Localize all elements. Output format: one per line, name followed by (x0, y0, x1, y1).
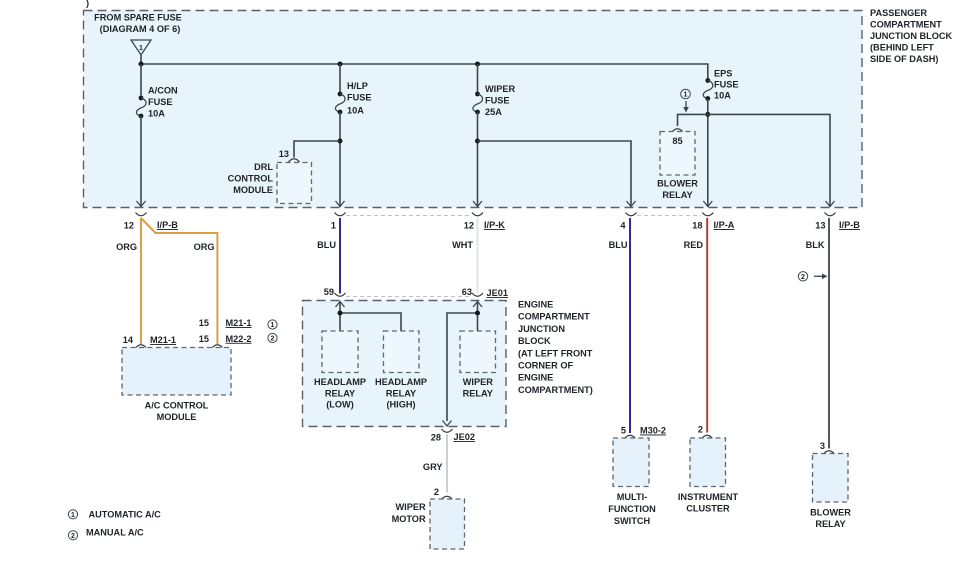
wire WIPER fuse to exit pin 12 I/P-K (477, 112, 479, 206)
svg-text:PASSENGER: PASSENGER (870, 8, 927, 18)
fuse WIPER 25A (473, 92, 483, 115)
headlamp relay high box (384, 331, 420, 373)
svg-text:3: 3 (820, 441, 825, 451)
label BLOWER RELAY (810, 508, 851, 529)
svg-text:(LOW): (LOW) (326, 400, 354, 410)
label DRL CONTROL MODULE (228, 162, 274, 195)
headlamp relay low box (322, 331, 358, 373)
svg-text:12: 12 (124, 221, 134, 231)
faint connector link pins 59 to 63 (346, 296, 471, 298)
svg-text:MULTI-: MULTI- (617, 492, 647, 502)
svg-text:FUSE: FUSE (148, 97, 173, 107)
svg-text:GRY: GRY (423, 462, 443, 472)
svg-text:MODULE: MODULE (157, 412, 197, 422)
svg-text:ENGINE: ENGINE (518, 373, 553, 383)
circled 2 note at M22-2 (268, 333, 277, 342)
svg-text:CORNER OF: CORNER OF (518, 361, 574, 371)
svg-text:2: 2 (698, 425, 703, 435)
circled 2 note at BLK wire (798, 272, 807, 281)
label pin 12 I/P-K (464, 220, 506, 231)
label HEADLAMP RELAY (LOW) (314, 377, 366, 410)
label pin 63 JE01 (462, 287, 508, 298)
junction node EPS branch (705, 112, 710, 117)
svg-text:18: 18 (692, 221, 702, 231)
svg-text:M21-1: M21-1 (150, 335, 176, 345)
svg-text:RELAY: RELAY (325, 388, 355, 398)
svg-text:H/LP: H/LP (347, 81, 368, 91)
arrow at pin 18 exit (703, 201, 712, 207)
svg-text:(AT LEFT FRONT: (AT LEFT FRONT (518, 348, 593, 358)
svg-text:BLOWER: BLOWER (657, 179, 698, 189)
connector smile pin 13 (825, 213, 836, 216)
wire BLK pin 13 to blower relay (828, 218, 830, 449)
wire pin 63 to wiper relay and JE02 (447, 302, 478, 422)
label WIPER FUSE 25A (485, 84, 515, 117)
label pin 15 M22-2 (199, 334, 252, 344)
arrow at pin 12 I/P-K exit (473, 201, 482, 207)
arrow note 1 down (683, 101, 689, 113)
label WIPER RELAY (463, 377, 494, 398)
svg-text:SWITCH: SWITCH (614, 516, 651, 526)
label EPS FUSE 10A (714, 69, 739, 101)
svg-text:2: 2 (434, 487, 439, 497)
circled 1 note (681, 89, 691, 99)
label pin 14 M21-1 (123, 335, 176, 345)
svg-text:INSTRUMENT: INSTRUMENT (678, 492, 739, 502)
svg-text:BLU: BLU (317, 240, 336, 250)
passenger compartment junction block box (84, 11, 863, 208)
svg-text:1: 1 (71, 512, 75, 519)
svg-text:25A: 25A (485, 107, 502, 117)
wiper relay box (460, 331, 496, 373)
svg-text:I/P-B: I/P-B (839, 220, 860, 230)
wire BLU pin 4 to multi-function switch (629, 218, 631, 433)
svg-text:2: 2 (71, 533, 75, 540)
label INSTRUMENT CLUSTER (678, 492, 739, 513)
wire bus to WIPER fuse (477, 64, 479, 94)
connector pin 85 blower relay (672, 129, 683, 132)
wire RED pin 18 to instrument cluster (706, 218, 708, 433)
svg-text:RED: RED (684, 240, 704, 250)
svg-text:DRL: DRL (254, 162, 273, 172)
svg-text:12: 12 (464, 221, 474, 231)
connector pin 13 DRL (289, 159, 300, 162)
faint connector link pins 1 to 12 (346, 215, 471, 217)
fuse H/LP 10A (335, 92, 345, 115)
DRL control module box (277, 163, 312, 204)
arrow down at pin 28 exit (443, 421, 452, 427)
svg-text:MANUAL A/C: MANUAL A/C (86, 528, 144, 538)
connector smile pin 1 (335, 213, 346, 216)
wire branch to DRL module (294, 141, 340, 158)
svg-text:I/P-A: I/P-A (714, 220, 735, 230)
engine compartment junction block box (303, 301, 507, 427)
arrow up at pin 59 inside (336, 302, 345, 308)
arrow at pin 13 exit (826, 201, 835, 207)
svg-text:FUNCTION: FUNCTION (608, 504, 656, 514)
svg-text:ORG: ORG (116, 242, 137, 252)
wire A/CON fuse to exit pin 12 (140, 116, 142, 206)
wire branch to pin 4 exit (478, 141, 632, 206)
connector pin 2 wiper motor (442, 496, 453, 499)
connector pin 5 (625, 435, 636, 438)
wire triangle to bus (140, 55, 142, 64)
svg-text:14: 14 (123, 335, 134, 345)
legend circled 1 (68, 510, 77, 519)
wire branch to blower relay and pin 13 exit (678, 114, 831, 206)
svg-text:WIPER: WIPER (463, 377, 493, 387)
svg-text:RELAY: RELAY (662, 190, 692, 200)
svg-text:(BEHIND LEFT: (BEHIND LEFT (870, 43, 934, 53)
label A/CON FUSE 10A (148, 86, 178, 119)
svg-text:COMPARTMENT: COMPARTMENT (518, 312, 590, 322)
svg-text:63: 63 (462, 287, 472, 297)
connector smile pin 18 (702, 213, 713, 216)
wire GRY JE02 to wiper motor (446, 434, 448, 493)
svg-text:AUTOMATIC A/C: AUTOMATIC A/C (89, 510, 162, 520)
svg-text:HEADLAMP: HEADLAMP (375, 377, 427, 387)
svg-text:MODULE: MODULE (233, 185, 273, 195)
connector smile pin 59 (335, 293, 346, 296)
svg-text:JE02: JE02 (454, 432, 475, 442)
svg-text:WHT: WHT (452, 240, 473, 250)
label pin 15 M21-1 (199, 318, 252, 328)
svg-text:FUSE: FUSE (347, 93, 372, 103)
wire BLU pin 1 to engine block pin 59 (339, 218, 341, 294)
arrow at pin 1 exit (336, 201, 345, 207)
svg-text:1: 1 (139, 45, 143, 52)
label BLOWER RELAY (in box) (657, 179, 698, 200)
svg-text:13: 13 (279, 149, 289, 159)
svg-text:2: 2 (271, 336, 275, 343)
wiper motor box (430, 499, 465, 549)
connector smile pin 63 (472, 293, 483, 296)
svg-text:RELAY: RELAY (386, 388, 416, 398)
svg-text:HEADLAMP: HEADLAMP (314, 377, 366, 387)
label MULTI-FUNCTION SWITCH (608, 492, 656, 526)
svg-text:M21-1: M21-1 (226, 318, 252, 328)
svg-text:10A: 10A (714, 91, 731, 101)
svg-text:EPS: EPS (714, 69, 732, 79)
svg-text:CLUSTER: CLUSTER (686, 504, 730, 514)
legend circled 2 (68, 531, 77, 540)
junction node WIPER (475, 62, 480, 67)
wire WHT pin 12 to engine block pin 63 (477, 218, 479, 294)
svg-text:I/P-K: I/P-K (484, 220, 505, 230)
spare fuse source triangle (131, 40, 151, 55)
blower relay box (813, 454, 849, 503)
fuse A/CON 10A (136, 96, 146, 119)
svg-text:FUSE: FUSE (485, 96, 510, 106)
wire ORG right branch (141, 218, 217, 344)
connector pin 14 (136, 345, 147, 348)
svg-text:RELAY: RELAY (815, 519, 845, 529)
svg-text:A/C CONTROL: A/C CONTROL (145, 400, 209, 410)
svg-text:10A: 10A (148, 109, 165, 119)
label HEADLAMP RELAY (HIGH) (375, 377, 427, 410)
svg-text:2: 2 (801, 274, 805, 281)
wire bus to H/LP fuse (339, 64, 341, 94)
junction node H/LP (338, 62, 343, 67)
label pin 28 JE02 (431, 432, 475, 443)
junction node DRL branch (338, 139, 343, 144)
svg-text:BLU: BLU (609, 240, 628, 250)
blower relay 85 box (660, 132, 695, 176)
multi-function switch box (613, 438, 649, 487)
svg-text:BLOWER: BLOWER (810, 508, 851, 518)
svg-text:A/CON: A/CON (148, 86, 178, 96)
svg-text:(HIGH): (HIGH) (386, 400, 415, 410)
connector smile pin 4 (626, 213, 637, 216)
bus wire (141, 64, 708, 81)
svg-text:COMPARTMENT: COMPARTMENT (870, 20, 942, 30)
svg-text:JE01: JE01 (487, 288, 508, 298)
svg-text:FUSE: FUSE (714, 80, 739, 90)
label pin 12 I/P-B (124, 220, 179, 231)
svg-text:BLK: BLK (806, 240, 825, 250)
svg-text:28: 28 (431, 433, 441, 443)
svg-text:FROM SPARE FUSE: FROM SPARE FUSE (94, 13, 182, 23)
label: engine compartment junction block (518, 300, 593, 395)
arrow at pin 12 exit (137, 201, 146, 207)
junction node wiper branch (475, 139, 480, 144)
junction node at triangle (139, 62, 144, 67)
svg-text:ENGINE: ENGINE (518, 300, 553, 310)
svg-text:RELAY: RELAY (463, 388, 493, 398)
svg-text:5: 5 (621, 426, 626, 436)
svg-text:1: 1 (331, 221, 336, 231)
label A/C CONTROL MODULE (145, 400, 209, 422)
label WIPER MOTOR (392, 502, 426, 524)
junction node pin 59 (338, 311, 343, 316)
svg-text:WIPER: WIPER (395, 502, 425, 512)
wire pin 59 to headlamp relays (340, 302, 401, 332)
junction node pin 63 (475, 311, 480, 316)
wire H/LP fuse to exit pin 1 (339, 112, 341, 206)
circled 1 note at M21-1 (268, 320, 277, 329)
svg-text:COMPARTMENT): COMPARTMENT) (518, 385, 593, 395)
label H/LP FUSE 10A (347, 81, 372, 116)
wire ORG left branch (140, 218, 142, 344)
svg-text:SIDE OF DASH): SIDE OF DASH) (870, 54, 938, 64)
label pin 13 I/P-B (815, 220, 860, 231)
label pin 5 M30-2 (621, 426, 666, 436)
svg-text:M22-2: M22-2 (226, 334, 252, 344)
svg-text:4: 4 (620, 221, 626, 231)
svg-text:M30-2: M30-2 (640, 426, 666, 436)
svg-text:15: 15 (199, 318, 209, 328)
arrow note 2 right (814, 274, 828, 280)
connector smile pin 12 I/P-B (136, 213, 147, 216)
connector smile pin 12 I/P-K (472, 213, 483, 216)
svg-text:85: 85 (672, 136, 682, 146)
wire bus to A/CON fuse (140, 64, 142, 98)
wire EPS fuse to exit pin 18 (707, 99, 709, 207)
wire colour labels row (116, 240, 825, 252)
svg-text:1: 1 (271, 322, 275, 329)
svg-text:(DIAGRAM 4 OF 6): (DIAGRAM 4 OF 6) (100, 24, 181, 34)
svg-text:10A: 10A (347, 106, 364, 116)
label pin 18 I/P-A (692, 220, 735, 231)
connector pin 3 blower relay (824, 451, 835, 454)
svg-text:ORG: ORG (194, 242, 215, 252)
instrument cluster box (690, 438, 726, 487)
faint connector link pins 4 to 18 (637, 215, 701, 217)
svg-text:WIPER: WIPER (485, 84, 515, 94)
svg-text:I/P-B: I/P-B (157, 220, 178, 230)
A/C control module box (122, 348, 231, 396)
svg-text:JUNCTION BLOCK: JUNCTION BLOCK (870, 31, 953, 41)
connector pin 15 (212, 345, 223, 348)
svg-text:JUNCTION: JUNCTION (518, 324, 565, 334)
svg-text:BLOCK: BLOCK (518, 336, 551, 346)
svg-text:MOTOR: MOTOR (392, 514, 426, 524)
svg-text:1: 1 (684, 92, 688, 99)
connector smile pin 28 (442, 429, 453, 432)
svg-text:): ) (86, 0, 89, 8)
arrow at pin 4 exit (627, 201, 636, 207)
svg-text:13: 13 (815, 221, 825, 231)
svg-text:15: 15 (199, 334, 209, 344)
svg-text:59: 59 (324, 287, 334, 297)
svg-text:CONTROL: CONTROL (228, 174, 274, 184)
fuse EPS 10A (703, 78, 713, 101)
connector pin 2 instrument cluster (702, 435, 713, 438)
arrow up at pin 63 inside (473, 302, 482, 308)
